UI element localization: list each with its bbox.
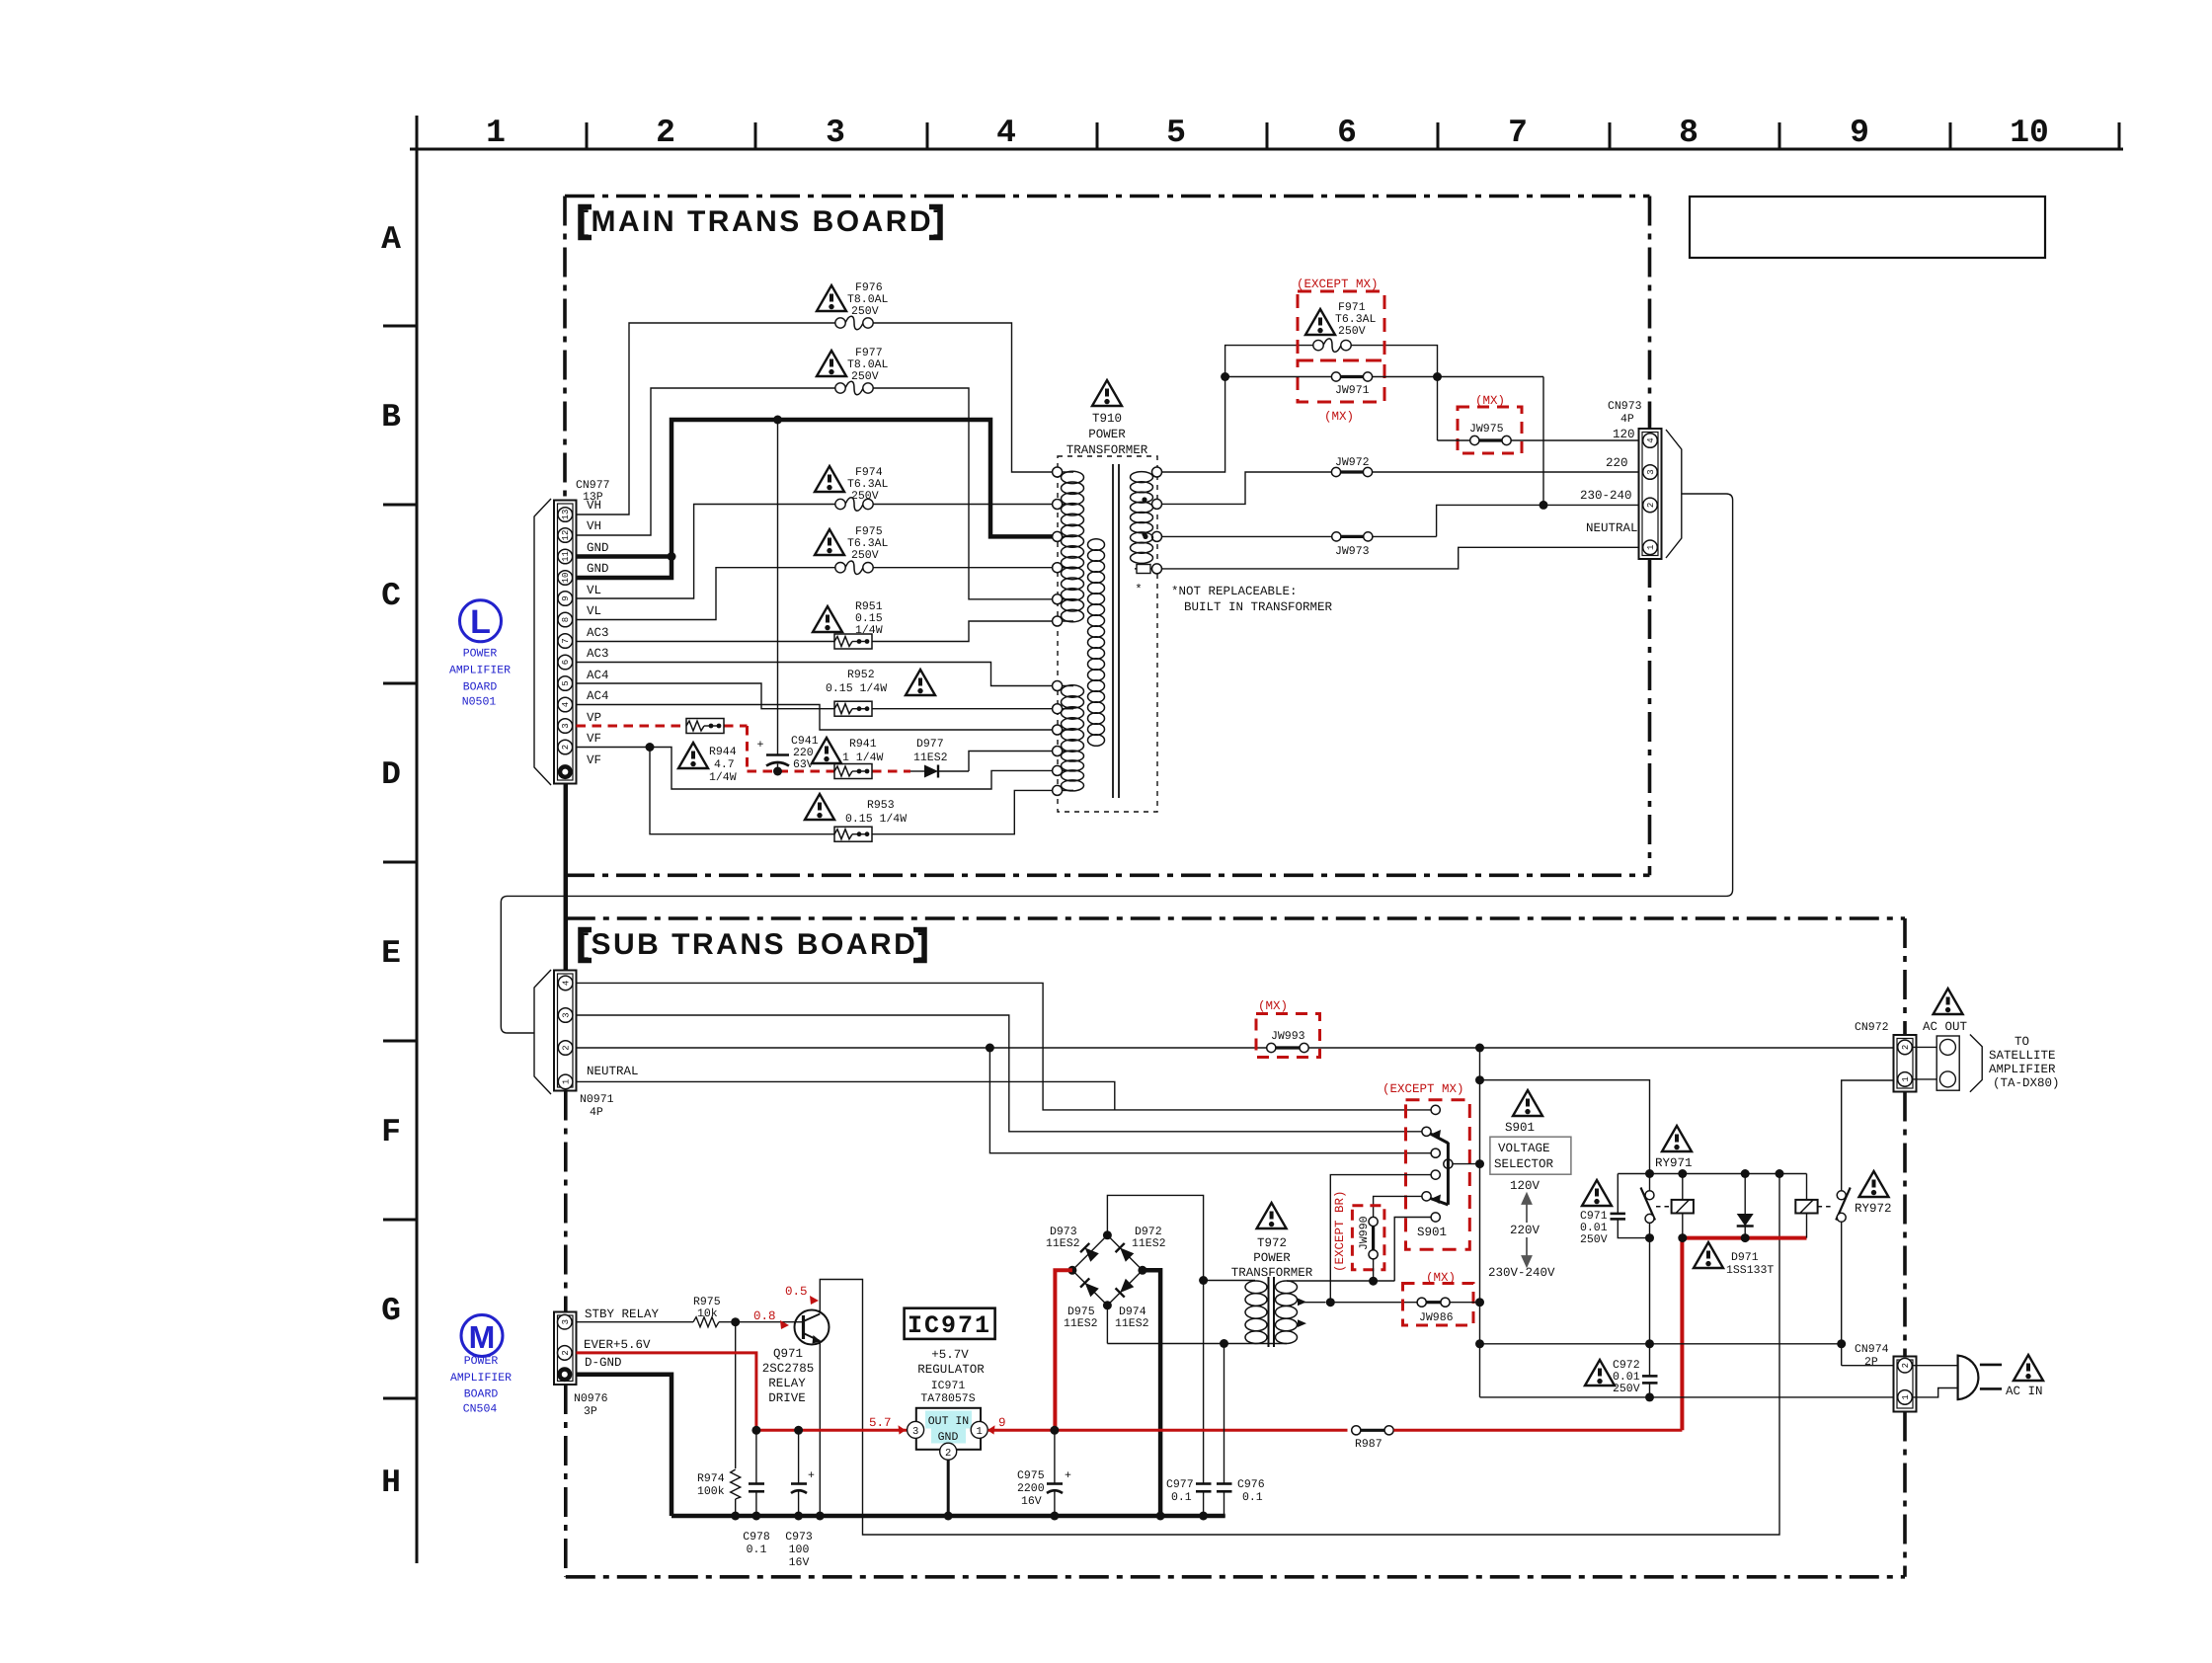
T972 core bbox=[1268, 1277, 1270, 1347]
svg-text:VOLTAGE: VOLTAGE bbox=[1498, 1142, 1550, 1155]
wire D977 to transformer bbox=[969, 752, 1053, 772]
CN977 pin labels bbox=[587, 499, 609, 767]
CN977 bracket bbox=[534, 499, 551, 785]
svg-text:[MAIN TRANS BOARD]: [MAIN TRANS BOARD] bbox=[579, 205, 946, 238]
RY971 mech link bbox=[1656, 1206, 1670, 1208]
svg-text:250V: 250V bbox=[851, 549, 879, 562]
svg-text:VH: VH bbox=[587, 499, 601, 513]
svg-text:(MX): (MX) bbox=[1426, 1271, 1456, 1285]
junction link row bbox=[1475, 1075, 1484, 1084]
junction VF to R953 bbox=[646, 743, 655, 752]
svg-text:(TA-DX80): (TA-DX80) bbox=[1993, 1076, 2060, 1090]
jumper JW971 bbox=[1225, 372, 1543, 397]
jumper JW993 bbox=[1267, 1030, 1308, 1053]
wire AC4 pin5 through R952 bbox=[577, 683, 1053, 709]
svg-text:NEUTRAL: NEUTRAL bbox=[587, 1065, 639, 1078]
sub board border bbox=[566, 918, 1905, 1577]
T972 bottom junction bbox=[1220, 1339, 1228, 1348]
S901 annotation triangle bbox=[1513, 1090, 1542, 1116]
S901 switch blade bbox=[1431, 1134, 1449, 1205]
svg-text:F: F bbox=[381, 1114, 401, 1150]
wire JW973 up to 230-240 row bbox=[1437, 505, 1641, 536]
wire S901 pin d down to JW986 row bbox=[1330, 1175, 1431, 1303]
CN977 pin circles with numbers bbox=[558, 508, 573, 754]
svg-text:VF: VF bbox=[587, 753, 601, 767]
svg-text:8: 8 bbox=[1679, 115, 1698, 151]
svg-text:BOARD: BOARD bbox=[463, 681, 498, 694]
relay RY972 coil bbox=[1795, 1174, 1817, 1238]
svg-text:VF: VF bbox=[587, 732, 601, 746]
connector CN973 bbox=[1639, 429, 1662, 559]
T910 core bbox=[1112, 464, 1114, 798]
svg-text:1: 1 bbox=[486, 115, 506, 151]
junction 230-240 bbox=[1540, 501, 1548, 510]
svg-text:RELAY: RELAY bbox=[768, 1377, 806, 1390]
bottom rail bbox=[1480, 1396, 1898, 1398]
svg-text:12: 12 bbox=[561, 530, 571, 541]
svg-text:M: M bbox=[469, 1319, 496, 1355]
svg-text:2: 2 bbox=[1901, 1363, 1911, 1368]
fuse F975 bbox=[835, 561, 873, 575]
svg-text:N0501: N0501 bbox=[462, 696, 497, 709]
svg-text:A: A bbox=[381, 221, 401, 258]
wire AC3 pin6 bbox=[577, 663, 1053, 686]
svg-text:+: + bbox=[808, 1469, 815, 1482]
svg-text:0.1: 0.1 bbox=[1171, 1491, 1192, 1504]
S901 blade arrows bbox=[1432, 1130, 1442, 1140]
svg-text:(EXCEPT BR): (EXCEPT BR) bbox=[1333, 1190, 1347, 1272]
svg-text:2: 2 bbox=[562, 1045, 572, 1050]
svg-text:GND: GND bbox=[938, 1431, 959, 1444]
wire bridge bottom to T972 bottom row bbox=[1106, 1306, 1108, 1344]
svg-text:D: D bbox=[381, 756, 401, 793]
svg-text:TRANSFORMER: TRANSFORMER bbox=[1066, 443, 1148, 457]
svg-text:G: G bbox=[381, 1293, 401, 1329]
junction red row bbox=[751, 1426, 760, 1435]
T972 bottom wire bbox=[1107, 1343, 1287, 1345]
T910 label bbox=[1066, 412, 1148, 457]
svg-text:B: B bbox=[381, 399, 401, 436]
svg-text:4P: 4P bbox=[590, 1106, 603, 1119]
svg-text:100: 100 bbox=[789, 1544, 810, 1556]
svg-text:STBY RELAY: STBY RELAY bbox=[585, 1307, 660, 1321]
svg-text:RY971: RY971 bbox=[1655, 1156, 1693, 1170]
wire STBY RELAY row with R975 bbox=[577, 1321, 797, 1323]
svg-text:63V: 63V bbox=[793, 758, 814, 771]
svg-text:5: 5 bbox=[1166, 115, 1186, 151]
svg-text:1: 1 bbox=[562, 1079, 572, 1084]
wire VH pin13 to F976 bbox=[577, 323, 1053, 515]
wire S901 pin f to T972 top bbox=[1394, 1218, 1431, 1282]
junction R975/R974 bbox=[731, 1317, 740, 1326]
svg-text:C977: C977 bbox=[1166, 1478, 1194, 1491]
Q971 labels bbox=[762, 1347, 815, 1405]
T972 secondary top wire bbox=[1287, 1280, 1394, 1282]
N0971 cable bracket bbox=[534, 970, 551, 1094]
svg-text:(MX): (MX) bbox=[1324, 410, 1354, 424]
svg-text:JW973: JW973 bbox=[1335, 545, 1370, 558]
Q971 emitter wire to gnd bbox=[819, 1342, 821, 1517]
wire D-GND thick bbox=[577, 1375, 672, 1516]
svg-text:11ES2: 11ES2 bbox=[1046, 1237, 1080, 1250]
wire N0971 pin2 row to JW993 and CN972 bbox=[577, 1047, 1898, 1049]
+9V red row relays bbox=[1683, 1236, 1807, 1240]
resistor R941 bbox=[834, 764, 872, 779]
svg-text:3: 3 bbox=[1646, 469, 1656, 474]
capacitor C941 bbox=[757, 420, 819, 771]
empty stamp box top right bbox=[1690, 197, 2045, 258]
jumper R987 on red row bbox=[1352, 1426, 1393, 1451]
svg-text:2: 2 bbox=[945, 1448, 951, 1460]
svg-text:8: 8 bbox=[561, 617, 571, 622]
svg-text:TA78057S: TA78057S bbox=[920, 1392, 975, 1405]
svg-text:AMPLIFIER: AMPLIFIER bbox=[449, 665, 511, 677]
transistor Q971 bbox=[795, 1310, 829, 1345]
svg-text:2SC2785: 2SC2785 bbox=[762, 1362, 815, 1376]
svg-text:2: 2 bbox=[1901, 1045, 1911, 1050]
svg-text:AC4: AC4 bbox=[587, 669, 609, 682]
junction rail dots bbox=[1645, 1169, 1654, 1178]
svg-text:10k: 10k bbox=[697, 1307, 718, 1320]
junction JW986 long vertical bbox=[1475, 1298, 1484, 1307]
svg-text:CN504: CN504 bbox=[463, 1403, 498, 1416]
svg-text:2: 2 bbox=[561, 1350, 571, 1355]
AC OUT receptacle bbox=[1912, 1036, 1959, 1090]
bridge vertex dots bbox=[1067, 1266, 1076, 1275]
junction C941 red row bbox=[773, 767, 782, 776]
svg-text:(EXCEPT MX): (EXCEPT MX) bbox=[1382, 1082, 1464, 1096]
svg-text:AC4: AC4 bbox=[587, 689, 609, 703]
RY972 warning bbox=[1859, 1171, 1889, 1197]
svg-text:POWER: POWER bbox=[1253, 1251, 1291, 1265]
svg-text:E: E bbox=[381, 935, 401, 972]
svg-text:250V: 250V bbox=[1338, 325, 1366, 338]
svg-text:JW986: JW986 bbox=[1419, 1311, 1454, 1324]
svg-text:GND: GND bbox=[587, 541, 609, 555]
svg-text:11: 11 bbox=[561, 551, 571, 562]
svg-text:2: 2 bbox=[561, 745, 571, 750]
svg-text:16V: 16V bbox=[1021, 1495, 1042, 1508]
T910 thermal fuse (not replaceable) bbox=[1135, 565, 1152, 597]
AC IN warning + label bbox=[2014, 1355, 2043, 1381]
svg-text:4: 4 bbox=[561, 702, 571, 707]
svg-text:7: 7 bbox=[561, 638, 571, 643]
svg-text:C973: C973 bbox=[785, 1531, 813, 1544]
jumper JW972 bbox=[1331, 456, 1641, 477]
diode D971 bbox=[1737, 1174, 1754, 1238]
svg-text:3P: 3P bbox=[584, 1405, 597, 1418]
TO SATELLITE AMPLIFIER text bbox=[1989, 1035, 2060, 1090]
T910 right pins bbox=[1152, 467, 1162, 574]
column ticks bbox=[587, 122, 2119, 149]
column numbers bbox=[486, 115, 2049, 151]
svg-text:10: 10 bbox=[2010, 115, 2049, 151]
svg-text:2P: 2P bbox=[1864, 1356, 1878, 1369]
fuse F976 bbox=[835, 316, 873, 330]
connector N0971 bbox=[554, 971, 577, 1091]
T972 tap arrows bbox=[1298, 1299, 1306, 1307]
svg-text:3: 3 bbox=[561, 1319, 571, 1324]
svg-text:13: 13 bbox=[561, 510, 571, 520]
wire S901 pin e to JW990 bbox=[1374, 1196, 1422, 1217]
svg-text:AC OUT: AC OUT bbox=[1923, 1020, 1968, 1034]
junction JW993 row long vertical bbox=[1475, 1044, 1484, 1053]
wire bridge top loop to T972 primary bbox=[1107, 1195, 1203, 1483]
row ticks bbox=[383, 326, 417, 1398]
red box EXCEPT BR / JW990 bbox=[1352, 1206, 1384, 1270]
svg-text:220: 220 bbox=[1606, 456, 1628, 470]
svg-text:4: 4 bbox=[996, 115, 1016, 151]
svg-text:S901: S901 bbox=[1417, 1226, 1447, 1239]
relay RY971 coil bbox=[1672, 1174, 1694, 1238]
svg-text:VL: VL bbox=[587, 584, 601, 597]
svg-text:D-GND: D-GND bbox=[585, 1356, 622, 1370]
T910 left winding coils lower bbox=[1062, 685, 1084, 791]
svg-text:GND: GND bbox=[587, 562, 609, 576]
svg-text:S901: S901 bbox=[1505, 1121, 1535, 1135]
svg-text:11ES2: 11ES2 bbox=[1132, 1237, 1166, 1250]
bridge labels bbox=[1046, 1226, 1166, 1330]
resistor R974 bbox=[735, 1322, 737, 1468]
svg-text:CN973: CN973 bbox=[1608, 400, 1642, 413]
svg-text:VH: VH bbox=[587, 519, 601, 533]
svg-text:9: 9 bbox=[998, 1416, 1006, 1430]
resistor R944 bbox=[686, 719, 724, 734]
wire right pin3 to JW973 bbox=[1162, 535, 1332, 537]
wire right pin1 up to F971 bbox=[1162, 346, 1314, 472]
svg-text:R941: R941 bbox=[849, 738, 877, 751]
svg-text:AMPLIFIER: AMPLIFIER bbox=[1989, 1063, 2056, 1076]
svg-text:3: 3 bbox=[826, 115, 845, 151]
svg-text:11ES2: 11ES2 bbox=[1064, 1317, 1098, 1330]
wire EVER+5.6V red bbox=[577, 1353, 756, 1430]
wire JW990 bottom to T972 top row bbox=[1373, 1259, 1375, 1281]
svg-text:T910: T910 bbox=[1092, 412, 1122, 426]
svg-text:4: 4 bbox=[1646, 437, 1656, 442]
svg-text:N0976: N0976 bbox=[574, 1392, 608, 1405]
svg-text:120V: 120V bbox=[1510, 1179, 1540, 1193]
svg-text:1: 1 bbox=[1646, 545, 1656, 550]
svg-text:D971: D971 bbox=[1731, 1251, 1759, 1264]
svg-text:POWER: POWER bbox=[464, 1355, 499, 1368]
svg-text:+: + bbox=[1065, 1469, 1071, 1482]
resistor R952 bbox=[834, 701, 872, 716]
wire tap row to JW986 bbox=[1330, 1302, 1417, 1304]
svg-text:C978: C978 bbox=[743, 1531, 770, 1544]
capacitor C977 inline bbox=[1166, 1478, 1212, 1516]
main board border top bbox=[565, 197, 1650, 876]
capacitor C975 bbox=[1017, 1430, 1071, 1516]
diode D975 bottom-left bbox=[1080, 1278, 1099, 1297]
svg-text:0.15 1/4W: 0.15 1/4W bbox=[845, 813, 907, 826]
svg-text:5: 5 bbox=[561, 680, 571, 685]
svg-text:R974: R974 bbox=[697, 1472, 725, 1485]
wire VL pin8 to F975 bbox=[577, 568, 1053, 620]
svg-text:SATELLITE: SATELLITE bbox=[1989, 1049, 2056, 1063]
wire N0971 pin3 to S901 pin b bbox=[577, 1015, 1422, 1132]
jumper JW990 (vertical) bbox=[1358, 1216, 1378, 1259]
svg-text:100k: 100k bbox=[697, 1485, 725, 1498]
+5.7V red row IC971 left bbox=[756, 1429, 907, 1432]
svg-text:NEUTRAL: NEUTRAL bbox=[1586, 521, 1638, 535]
svg-text:250V: 250V bbox=[851, 490, 879, 503]
wire thermal fuse to NEUTRAL bbox=[1162, 547, 1642, 569]
svg-text:POWER: POWER bbox=[1088, 428, 1126, 441]
svg-text:0.5: 0.5 bbox=[785, 1285, 808, 1299]
svg-text:1/4W: 1/4W bbox=[855, 624, 883, 637]
gnd bus junction dots bbox=[731, 1512, 1208, 1521]
wire to R953 bbox=[650, 748, 1053, 834]
wire VP pin3 red dashed through R944 bbox=[577, 726, 911, 771]
wire CN973 bracket long run to sub board bbox=[501, 494, 1732, 1033]
junction thick bus to C941 bbox=[773, 416, 782, 425]
svg-text:0.8: 0.8 bbox=[753, 1309, 776, 1323]
svg-text:(MX): (MX) bbox=[1258, 999, 1288, 1013]
capacitor C972 bbox=[1642, 1376, 1658, 1397]
svg-text:1: 1 bbox=[1901, 1076, 1911, 1081]
svg-text:220V: 220V bbox=[1510, 1224, 1540, 1237]
junction F971/JW971 bbox=[1221, 372, 1229, 381]
long vertical from JW993 row down bbox=[1479, 1048, 1481, 1397]
wire F971 to junction bbox=[1351, 346, 1438, 377]
capacitor C973 bbox=[785, 1430, 815, 1569]
svg-text:*NOT REPLACEABLE:: *NOT REPLACEABLE: bbox=[1171, 585, 1298, 598]
svg-text:120: 120 bbox=[1613, 428, 1635, 441]
diode D973 top-left bbox=[1080, 1243, 1099, 1262]
resistor R951 bbox=[834, 634, 872, 649]
svg-text:0.15 1/4W: 0.15 1/4W bbox=[826, 682, 887, 695]
main board left border solid segment through CN977 to sub board bbox=[564, 783, 569, 918]
L power amplifier board label bbox=[449, 600, 511, 709]
svg-text:2: 2 bbox=[656, 115, 675, 151]
regulator IC971 label bbox=[905, 1308, 995, 1339]
CN977 pin 1 filled bbox=[558, 764, 573, 779]
junction tap row to S901 d bbox=[1326, 1298, 1335, 1307]
wire RY972 to CN974 pin2 bbox=[1842, 1365, 1898, 1367]
T972 primary top wire bbox=[1203, 1280, 1255, 1282]
svg-text:230-240: 230-240 bbox=[1580, 489, 1632, 503]
capacitor C978 bbox=[743, 1430, 770, 1556]
IC971 pin2 to gnd bbox=[947, 1460, 950, 1516]
gnd bus bbox=[671, 1514, 1225, 1519]
svg-text:IC971: IC971 bbox=[931, 1380, 966, 1392]
svg-text:(MX): (MX) bbox=[1475, 394, 1505, 408]
svg-text:3: 3 bbox=[561, 723, 571, 728]
svg-text:CN974: CN974 bbox=[1855, 1343, 1889, 1356]
M power amplifier board label bbox=[450, 1315, 512, 1416]
jumper JW975 bbox=[1438, 423, 1642, 445]
svg-text:D977: D977 bbox=[916, 738, 944, 751]
regulator IC971 body bbox=[908, 1408, 988, 1460]
svg-text:T972: T972 bbox=[1257, 1236, 1287, 1250]
svg-text:JW971: JW971 bbox=[1335, 384, 1370, 397]
jumper JW973 bbox=[1332, 532, 1437, 558]
svg-text:AC3: AC3 bbox=[587, 647, 609, 661]
T910 warning triangle bbox=[1092, 380, 1122, 406]
fuse F974 bbox=[835, 498, 873, 512]
connector N0976 bbox=[554, 1312, 577, 1386]
svg-text:VL: VL bbox=[587, 604, 601, 618]
polarity dot right pin3 bbox=[1143, 534, 1147, 539]
svg-text:Q971: Q971 bbox=[773, 1347, 803, 1361]
svg-text:EVER+5.6V: EVER+5.6V bbox=[584, 1338, 651, 1352]
svg-text:1: 1 bbox=[1901, 1394, 1911, 1399]
svg-text:*: * bbox=[1135, 583, 1143, 596]
svg-text:6: 6 bbox=[561, 660, 571, 665]
svg-text:2200: 2200 bbox=[1017, 1482, 1045, 1495]
capacitor C976 inline bbox=[1217, 1344, 1265, 1517]
wire junction down to JW975 row bbox=[1437, 377, 1439, 441]
svg-text:250V: 250V bbox=[851, 305, 879, 318]
svg-text:0.1: 0.1 bbox=[1242, 1491, 1263, 1504]
wire AC3 pin7 through R951 bbox=[577, 621, 1053, 642]
svg-text:11ES2: 11ES2 bbox=[1115, 1317, 1149, 1330]
red box MX JW975 bbox=[1458, 407, 1522, 453]
wire N0971 pin4 to S901 pin a bbox=[577, 983, 1431, 1110]
svg-text:L: L bbox=[470, 603, 491, 641]
svg-text:3: 3 bbox=[562, 1012, 572, 1017]
svg-text:230V-240V: 230V-240V bbox=[1488, 1266, 1555, 1280]
+9V red row IC971 right bbox=[988, 1429, 1348, 1432]
svg-text:VP: VP bbox=[587, 711, 601, 725]
svg-text:11ES2: 11ES2 bbox=[913, 752, 948, 764]
T910 inner winding coils bbox=[1088, 539, 1105, 747]
diode D974 bottom-right bbox=[1116, 1278, 1135, 1297]
svg-text:BOARD: BOARD bbox=[464, 1388, 499, 1401]
svg-text:9: 9 bbox=[561, 595, 571, 600]
wire junction down to S901 pin c bbox=[989, 1048, 1430, 1153]
svg-text:0.1: 0.1 bbox=[747, 1544, 767, 1556]
svg-text:H: H bbox=[381, 1465, 401, 1501]
T972 right coil bbox=[1276, 1281, 1298, 1343]
VOLTAGE SELECTOR box bbox=[1490, 1137, 1571, 1174]
capacitor C971 branch bbox=[1611, 1174, 1650, 1238]
svg-text:+: + bbox=[757, 739, 764, 752]
svg-text:7: 7 bbox=[1508, 115, 1528, 151]
svg-text:R944: R944 bbox=[709, 746, 737, 758]
relay RY971 contact bbox=[1641, 1174, 1656, 1377]
svg-text:SELECTOR: SELECTOR bbox=[1494, 1157, 1554, 1171]
red box MX JW986 bbox=[1403, 1284, 1474, 1326]
diode D977 bbox=[910, 738, 969, 778]
relay rail bbox=[1618, 1173, 1806, 1175]
bracket to satellite bbox=[1970, 1035, 1982, 1092]
T972 left coil bbox=[1245, 1281, 1267, 1343]
T910 right winding coils bbox=[1131, 472, 1153, 564]
CN974 row bbox=[1480, 1343, 1842, 1345]
T910 left winding stubs bbox=[1063, 472, 1073, 790]
svg-text:4P: 4P bbox=[1620, 413, 1634, 426]
ruler horizontal line bbox=[410, 148, 2123, 151]
wire bridge left red to +9V row bbox=[1055, 1270, 1072, 1430]
svg-text:R952: R952 bbox=[847, 669, 875, 681]
svg-text:9: 9 bbox=[1850, 115, 1869, 151]
wire VF pin2 bbox=[577, 748, 1053, 790]
svg-text:5.7: 5.7 bbox=[869, 1416, 892, 1430]
net labels 120 220 230-240 NEUTRAL bbox=[1580, 428, 1638, 535]
sub board border solid bit above N0971 bbox=[564, 918, 569, 972]
T910 left winding coils upper bbox=[1062, 471, 1084, 622]
svg-text:TO: TO bbox=[2014, 1035, 2029, 1049]
connector CN977 bbox=[554, 501, 577, 784]
junction GND pins bbox=[668, 552, 676, 561]
svg-text:16V: 16V bbox=[789, 1556, 810, 1569]
svg-text:OUT IN: OUT IN bbox=[928, 1415, 969, 1428]
svg-text:C: C bbox=[381, 578, 401, 614]
wire bridge right thick to gnd bus bbox=[1143, 1270, 1160, 1516]
svg-text:4: 4 bbox=[562, 981, 572, 986]
svg-text:CN972: CN972 bbox=[1855, 1021, 1889, 1034]
